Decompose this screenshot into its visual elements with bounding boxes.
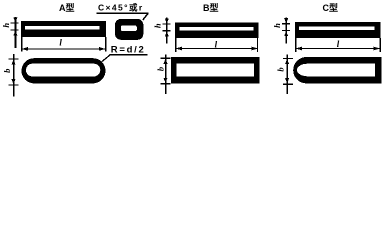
- svg-text:C×45°或r: C×45°或r: [98, 3, 144, 13]
- dimension l (A) ext line right: [105, 37, 106, 52]
- svg-text:b: b: [2, 69, 12, 73]
- dimension b (A) arrow top: [12, 59, 16, 64]
- dimension l (C) line: [296, 48, 380, 49]
- dimension b (A) tick bottom: [9, 84, 19, 85]
- dimension h (A) extension tick top: [10, 22, 18, 23]
- dimension b (C) arrow bottom: [285, 78, 289, 83]
- dimension b (B) line: [165, 55, 167, 95]
- dimension b (A) line: [13, 54, 15, 97]
- dimension b (A) tick top: [9, 58, 19, 59]
- key A cross-section: [115, 19, 143, 40]
- svg-text:A型: A型: [59, 2, 75, 13]
- dimension h (B) line: [166, 18, 168, 44]
- key C side view body: [295, 22, 381, 38]
- key A plan view (stadium): [22, 58, 106, 83]
- leader with arrow to round end: [97, 55, 110, 66]
- dimension h (B) tick bottom: [163, 30, 171, 31]
- dimension h (A) arrow top: [13, 18, 17, 23]
- dimension h (B) arrow bottom: [165, 31, 169, 36]
- dimension b (B) tick bottom: [161, 83, 171, 84]
- dimension l (A) ext line left: [21, 37, 22, 52]
- dimension l (A) arrow right: [99, 47, 105, 51]
- svg-text:C型: C型: [323, 2, 339, 13]
- key B side view body: [175, 22, 259, 38]
- dimension b (C) line: [286, 55, 288, 95]
- dimension l (C) arrow left: [296, 47, 302, 51]
- svg-text:b: b: [155, 67, 165, 71]
- dimension b (C) arrow top: [285, 59, 289, 64]
- leader to chamfer: [143, 13, 149, 20]
- dimension h (B) tick top: [163, 23, 171, 24]
- dimension l (C) arrow right: [374, 47, 380, 51]
- dimension l (B) line: [176, 48, 258, 49]
- dimension l (C) ext line right: [379, 38, 380, 52]
- label underline: [110, 54, 148, 56]
- key C plan view (one round end): [293, 57, 381, 83]
- dimension h (C) tick top: [282, 23, 290, 24]
- dimension b (C) tick bottom: [283, 83, 293, 84]
- key B plan view: [171, 57, 260, 84]
- dimension h (C) line: [285, 18, 287, 44]
- svg-text:h: h: [1, 23, 11, 28]
- dimension l (B) arrow right: [252, 47, 258, 51]
- dimension h (A) extension tick bottom: [10, 30, 18, 31]
- dimension b (B) arrow bottom: [164, 78, 168, 83]
- dimension l (B) ext line right: [257, 38, 258, 52]
- label underline: [97, 12, 149, 13]
- dimension h (C) tick bottom: [282, 30, 290, 31]
- dimension l (B) ext line left: [175, 38, 176, 52]
- dimension l (A) arrow left: [22, 47, 28, 51]
- dimension b (B) arrow top: [164, 59, 168, 64]
- dimension h (C) arrow bottom: [284, 31, 288, 36]
- key A side view body: [21, 21, 106, 37]
- dimension h (A) arrow bottom: [13, 31, 17, 36]
- dimension h (A) line: [15, 17, 17, 48]
- dimension b (C) tick top: [283, 58, 293, 59]
- dimension b (B) tick top: [161, 58, 171, 59]
- svg-text:b: b: [275, 67, 285, 71]
- dimension l (A) line: [22, 48, 105, 49]
- svg-text:h: h: [272, 23, 282, 28]
- dimension l (B) arrow left: [176, 47, 182, 51]
- dimension l (C) ext line left: [295, 38, 296, 52]
- dimension h (B) arrow top: [165, 18, 169, 23]
- svg-text:B型: B型: [203, 2, 219, 13]
- svg-text:h: h: [152, 23, 162, 28]
- dimension h (C) arrow top: [284, 18, 288, 23]
- dimension b (A) arrow bottom: [12, 79, 16, 84]
